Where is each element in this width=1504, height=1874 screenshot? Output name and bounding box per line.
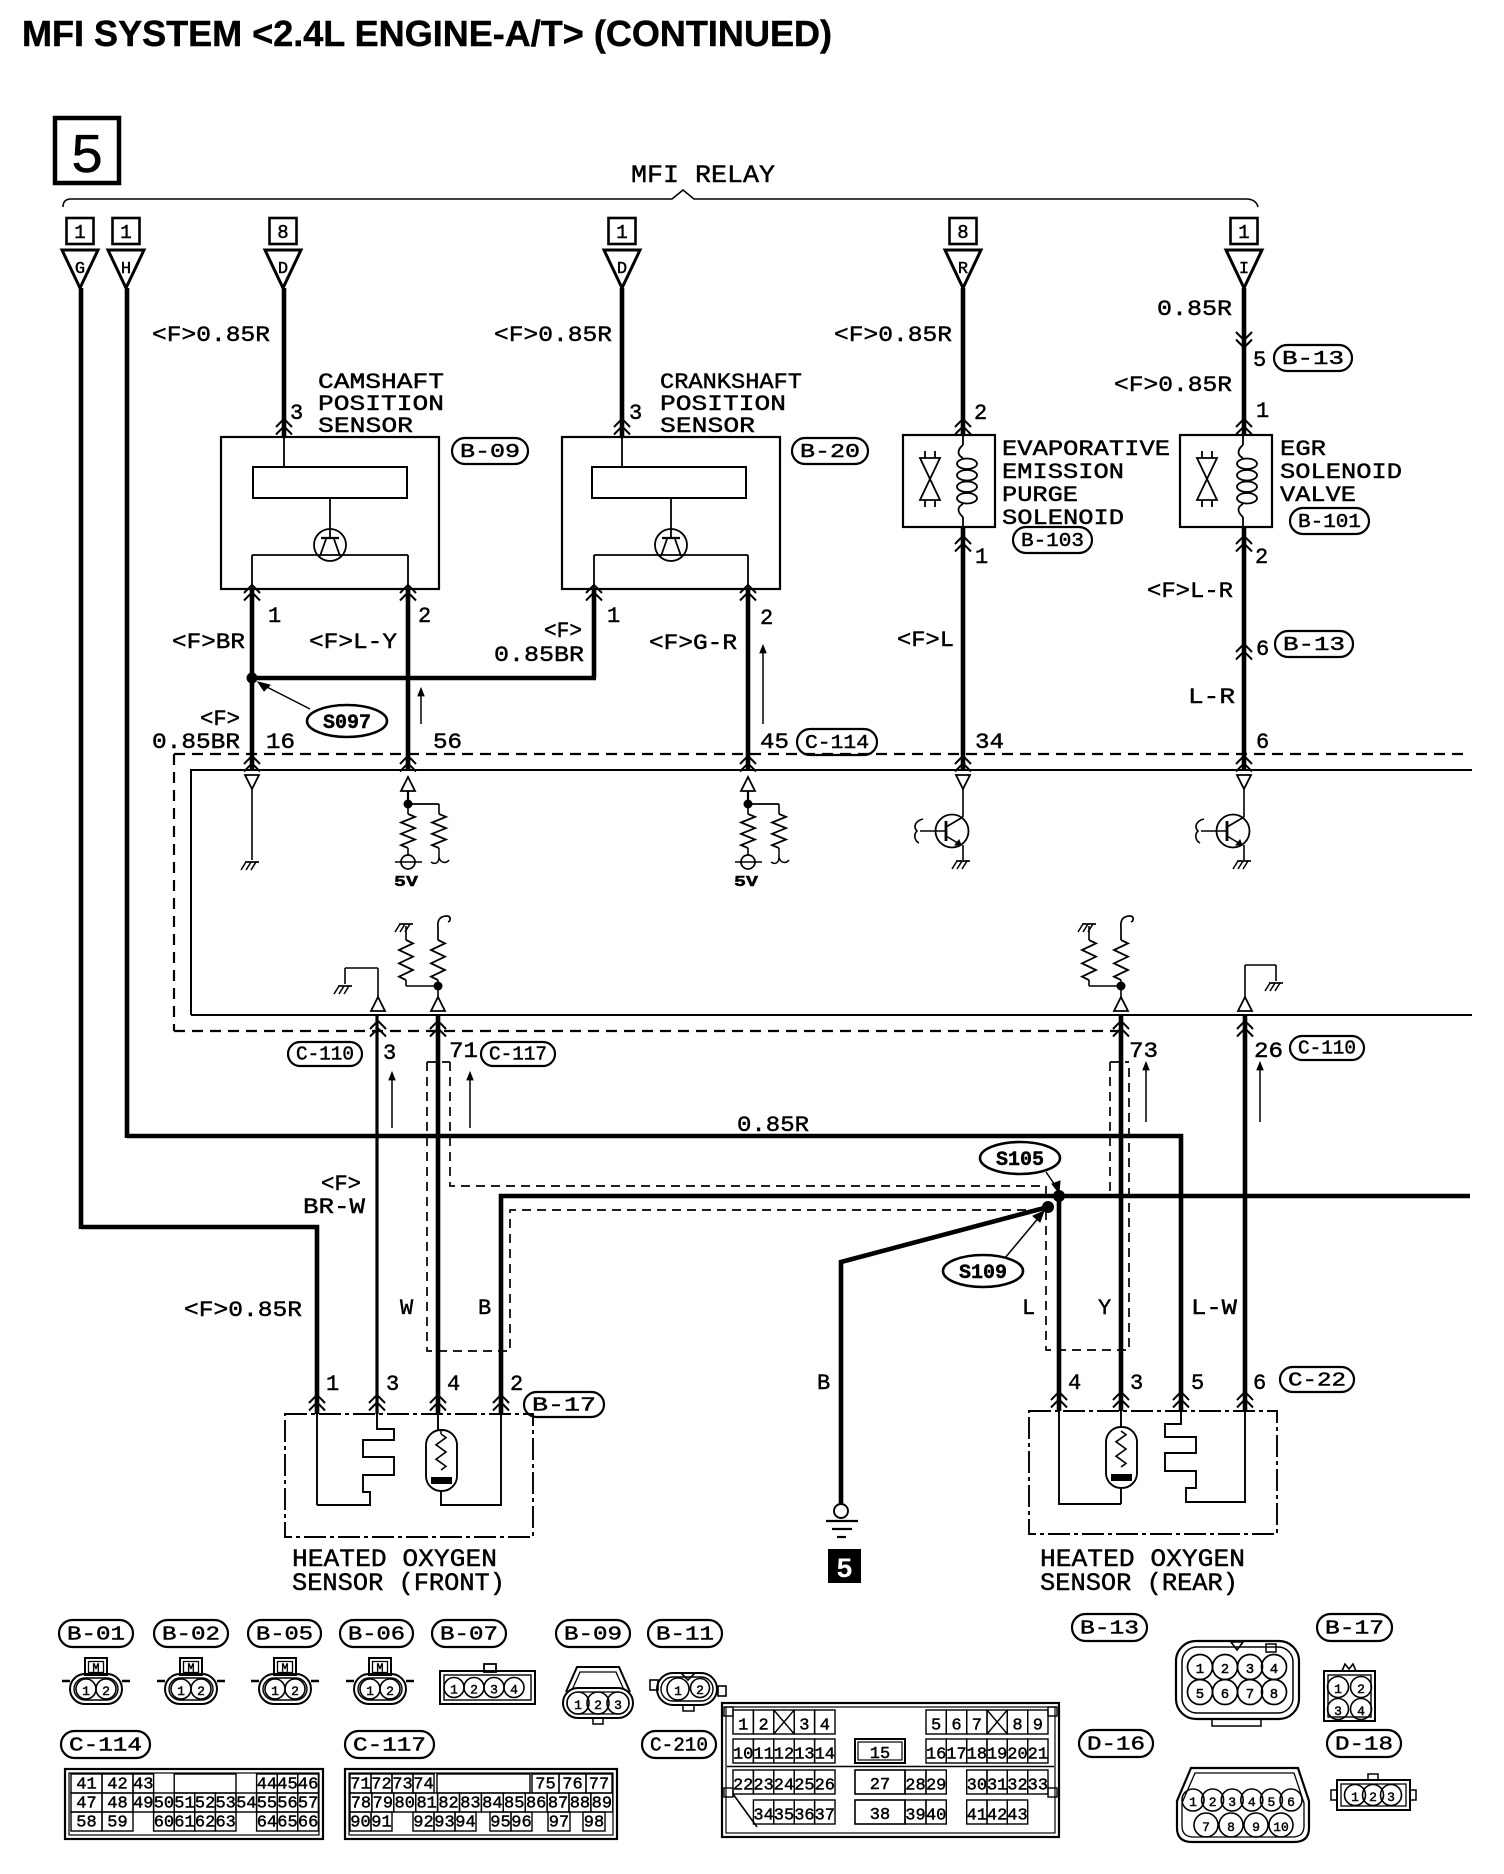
chevron ECU pin 3: [370, 1021, 386, 1029]
svg-text:58: 58: [76, 1814, 96, 1833]
svg-text:C-210: C-210: [650, 1735, 708, 1757]
chevron camshaft pin 3: [276, 419, 292, 427]
connector tag C-110 (right): [1290, 1036, 1364, 1060]
chevron purge pin 2: [955, 419, 971, 427]
chevron front pin 4: [430, 1395, 446, 1403]
chevron B-13 crossing (EGR feed): [1236, 332, 1252, 340]
chevron ECU pin 34: [955, 756, 971, 764]
svg-text:8: 8: [277, 222, 288, 244]
connector icon B-05: [251, 1658, 319, 1704]
junction S109 node: [1042, 1201, 1054, 1213]
svg-text:MFI RELAY: MFI RELAY: [631, 161, 775, 190]
svg-text:36: 36: [794, 1807, 814, 1826]
svg-text:14: 14: [815, 1746, 835, 1765]
svg-text:94: 94: [455, 1814, 475, 1833]
svg-text:41: 41: [76, 1776, 96, 1795]
svg-text:2: 2: [1221, 1662, 1229, 1678]
svg-text:Y: Y: [1098, 1296, 1111, 1321]
ECU inner box: [191, 770, 1472, 1015]
connector pin box 1 (I): [1231, 218, 1258, 244]
connector pin box 8 (D cam): [270, 218, 297, 244]
chevron EGR pin 2: [1236, 536, 1252, 544]
svg-text:86: 86: [526, 1795, 546, 1814]
ECU dashed boundary: [174, 754, 1468, 1031]
crankshaft sensor internal wires: [594, 555, 748, 589]
svg-text:52: 52: [195, 1795, 215, 1814]
connector pinout grid C-117: [345, 1769, 617, 1839]
svg-text:78: 78: [351, 1795, 371, 1814]
svg-text:43: 43: [133, 1776, 153, 1795]
svg-text:B-05: B-05: [256, 1624, 313, 1646]
chevron ECU pin 56: [400, 756, 416, 764]
svg-text:10: 10: [733, 1746, 753, 1765]
svg-text:EGR: EGR: [1280, 437, 1326, 462]
connector pinout grid C-210: [722, 1703, 1059, 1837]
wire front sensor pin 2 up and S105 horizontal: [501, 1196, 1470, 1414]
svg-text:<F>: <F>: [544, 619, 582, 644]
svg-text:3: 3: [1228, 1795, 1236, 1810]
svg-text:1: 1: [1189, 1795, 1197, 1810]
svg-text:62: 62: [195, 1814, 215, 1833]
svg-text:54: 54: [236, 1795, 256, 1814]
ECU internal ground pin 16: [241, 775, 259, 870]
camshaft sensor hall element U: [314, 498, 346, 561]
svg-text:2: 2: [1357, 1682, 1365, 1697]
svg-text:29: 29: [926, 1777, 946, 1796]
connector tag B-17 (inline): [524, 1392, 604, 1417]
chevron B-13 crossing lower: [1236, 644, 1252, 652]
chevron crankshaft pin 2: [740, 585, 756, 593]
svg-text:4: 4: [447, 1372, 460, 1397]
ground symbol B wire: [826, 1504, 858, 1537]
chevron camshaft pin 1: [244, 585, 260, 593]
svg-text:BR-W: BR-W: [303, 1195, 366, 1220]
svg-text:L-R: L-R: [1188, 685, 1235, 710]
svg-text:73: 73: [1129, 1039, 1158, 1064]
svg-text:B-09: B-09: [564, 1624, 622, 1646]
svg-text:L-W: L-W: [1191, 1296, 1238, 1321]
ECU internal driver transistor pin 6: [1196, 775, 1251, 869]
svg-text:B-17: B-17: [532, 1394, 596, 1416]
svg-text:60: 60: [154, 1814, 174, 1833]
svg-text:1: 1: [674, 1684, 682, 1699]
svg-text:55: 55: [257, 1795, 277, 1814]
wire H horizontal 0.85R to rear sensor pin 5: [127, 1136, 1181, 1411]
svg-text:85: 85: [504, 1795, 524, 1814]
svg-text:4: 4: [1357, 1704, 1365, 1719]
svg-text:63: 63: [215, 1814, 235, 1833]
crankshaft sensor hall element U: [655, 498, 687, 561]
svg-text:I: I: [1239, 260, 1249, 279]
crankshaft sensor element: [592, 437, 746, 498]
svg-text:1: 1: [120, 222, 131, 244]
wire S097 horizontal: [250, 676, 596, 681]
chevron EGR pin 1: [1236, 419, 1252, 427]
svg-text:75: 75: [535, 1776, 555, 1795]
junction label S109: [943, 1211, 1044, 1287]
relay terminal I: [1226, 250, 1262, 288]
connector tag B-17 (legend): [1317, 1614, 1392, 1641]
svg-text:16: 16: [266, 730, 295, 755]
svg-text:1: 1: [1334, 1682, 1342, 1697]
connector icon B-13: [1176, 1641, 1299, 1726]
connector tag B-09: [452, 438, 528, 464]
svg-text:95: 95: [490, 1814, 510, 1833]
svg-text:84: 84: [482, 1795, 502, 1814]
svg-text:3: 3: [614, 1698, 622, 1713]
wire R to purge solenoid: [961, 288, 966, 435]
svg-text:EMISSION: EMISSION: [1002, 460, 1124, 485]
svg-text:2: 2: [760, 606, 773, 631]
svg-text:B-06: B-06: [348, 1624, 405, 1646]
connector tag C-22: [1280, 1367, 1354, 1392]
svg-text:2: 2: [470, 1683, 478, 1698]
svg-text:4: 4: [1068, 1371, 1081, 1396]
svg-text:B-17: B-17: [1325, 1618, 1384, 1640]
wire purge solenoid to ECU pin 34: [961, 527, 966, 770]
connector tag C-210: [642, 1731, 716, 1758]
connector icon B-01: [62, 1658, 130, 1704]
svg-text:1: 1: [74, 222, 85, 244]
relay terminal R: [945, 250, 981, 288]
svg-text:4: 4: [1248, 1795, 1256, 1810]
svg-text:D: D: [278, 260, 288, 279]
heated oxygen sensor rear box C-22: [1029, 1411, 1277, 1534]
svg-text:5: 5: [1253, 348, 1266, 373]
wire EGR solenoid to ECU pin 6: [1242, 527, 1247, 770]
svg-text:0.85BR: 0.85BR: [152, 730, 240, 755]
svg-text:1: 1: [1196, 1662, 1204, 1678]
svg-text:87: 87: [548, 1795, 568, 1814]
svg-text:B-01: B-01: [67, 1624, 125, 1646]
svg-text:53: 53: [215, 1795, 235, 1814]
svg-text:2: 2: [1209, 1795, 1217, 1810]
wire I to EGR solenoid: [1242, 288, 1247, 435]
svg-text:<F>0.85R: <F>0.85R: [1114, 373, 1232, 398]
svg-text:D: D: [617, 260, 627, 279]
chevron rear pin 3: [1113, 1392, 1129, 1400]
svg-text:44: 44: [257, 1776, 277, 1795]
junction S097 node: [247, 673, 258, 684]
svg-text:EVAPORATIVE: EVAPORATIVE: [1002, 437, 1170, 462]
EGR solenoid valve B-101 box: [1180, 435, 1272, 527]
ECU internal bent ground pin 3: [334, 968, 385, 1011]
chevron ECU pin 45: [740, 756, 756, 764]
svg-text:31: 31: [987, 1777, 1007, 1796]
svg-text:74: 74: [413, 1776, 433, 1795]
svg-text:3: 3: [629, 401, 642, 426]
svg-text:24: 24: [774, 1777, 794, 1796]
ECU internal 5V pull-up pin 56: [394, 777, 449, 891]
svg-text:34: 34: [975, 730, 1004, 755]
connector tag B-13 (lower): [1275, 631, 1353, 657]
svg-text:79: 79: [373, 1795, 393, 1814]
svg-text:B-07: B-07: [440, 1624, 498, 1646]
svg-text:SOLENOID: SOLENOID: [1280, 460, 1402, 485]
svg-text:7: 7: [972, 1717, 982, 1736]
wire crankshaft pin 2 to ECU pin 45: [746, 589, 751, 770]
svg-text:0.85BR: 0.85BR: [494, 643, 584, 668]
svg-text:1: 1: [326, 1372, 339, 1397]
relay terminal D (camshaft): [265, 250, 301, 288]
svg-text:12: 12: [774, 1746, 794, 1765]
connector pin box 1 (H): [113, 218, 140, 244]
svg-text:73: 73: [392, 1776, 412, 1795]
connector tag B-02: [154, 1620, 228, 1647]
connector icon D-18: [1331, 1774, 1416, 1810]
svg-text:5: 5: [1196, 1687, 1204, 1703]
evaporative emission purge solenoid B-103 box: [903, 435, 995, 527]
svg-text:5: 5: [1267, 1795, 1275, 1810]
connector tag C-114 (legend): [61, 1731, 150, 1758]
svg-text:5: 5: [836, 1555, 853, 1586]
arrow up beside wire 71: [469, 1075, 471, 1128]
svg-text:C-110: C-110: [1298, 1038, 1356, 1060]
connector tag C-110 (left): [288, 1042, 362, 1066]
svg-text:25: 25: [794, 1777, 814, 1796]
svg-text:32: 32: [1007, 1777, 1027, 1796]
svg-text:2: 2: [291, 1684, 299, 1699]
connector tag B-06: [340, 1620, 413, 1647]
svg-text:B-13: B-13: [1282, 348, 1344, 370]
svg-text:46: 46: [298, 1776, 318, 1795]
svg-text:3: 3: [1246, 1662, 1254, 1678]
svg-text:93: 93: [434, 1814, 454, 1833]
ECU internal driver transistor pin 34: [915, 775, 970, 869]
svg-text:91: 91: [371, 1814, 391, 1833]
svg-text:38: 38: [870, 1806, 890, 1825]
svg-text:B-09: B-09: [460, 441, 520, 463]
shield dashed outline left: [427, 1062, 1129, 1351]
svg-text:71: 71: [449, 1039, 478, 1064]
C-210 middle boxed cells: [724, 1707, 1057, 1827]
svg-text:D-16: D-16: [1087, 1734, 1145, 1756]
crankshaft position sensor B-20 box: [562, 437, 780, 589]
connector tag B-20: [792, 438, 868, 464]
connector pin box 1 (G): [67, 218, 94, 244]
svg-text:2: 2: [1369, 1790, 1377, 1805]
svg-text:82: 82: [438, 1795, 458, 1814]
chevron ECU pin 6: [1236, 756, 1252, 764]
wire B rear diagonal: [841, 1207, 1048, 1262]
connector tag C-117: [481, 1042, 555, 1066]
connector tag B-09 (legend): [556, 1620, 630, 1647]
wire crankshaft pin 1 down: [592, 589, 597, 678]
svg-text:<F>0.85R: <F>0.85R: [834, 323, 952, 348]
svg-text:C-110: C-110: [296, 1044, 354, 1066]
label CRANKSHAFT POSITION SENSOR: [660, 370, 802, 439]
EGR solenoid coil: [1237, 435, 1257, 527]
chevron front pin 3: [369, 1395, 385, 1403]
connector tag B-13 (upper): [1274, 345, 1352, 371]
svg-text:3: 3: [1387, 1790, 1395, 1805]
wire D to crankshaft sensor: [620, 288, 625, 437]
svg-text:76: 76: [562, 1776, 582, 1795]
purge solenoid valve symbol: [920, 451, 940, 507]
svg-text:33: 33: [1028, 1777, 1048, 1796]
svg-text:90: 90: [350, 1814, 370, 1833]
svg-text:50: 50: [154, 1795, 174, 1814]
svg-text:3: 3: [290, 401, 303, 426]
page tag 5 black box: [828, 1549, 861, 1586]
svg-text:6: 6: [1287, 1795, 1295, 1810]
svg-text:3: 3: [383, 1041, 396, 1066]
svg-text:<F>L-R: <F>L-R: [1147, 579, 1233, 604]
svg-text:B-13: B-13: [1080, 1618, 1139, 1640]
svg-text:39: 39: [905, 1807, 925, 1826]
front sensor zirconia element: [317, 1414, 394, 1505]
svg-text:22: 22: [733, 1777, 753, 1796]
svg-text:59: 59: [107, 1814, 127, 1833]
svg-text:27: 27: [870, 1776, 890, 1795]
svg-text:H: H: [121, 260, 131, 279]
junction label S105: [980, 1142, 1060, 1193]
svg-text:1: 1: [177, 1684, 185, 1699]
label EGR SOLENOID VALVE: [1280, 437, 1402, 508]
svg-text:34: 34: [753, 1807, 773, 1826]
label (F) BR-W: [303, 1172, 366, 1220]
arrow up beside wire 73: [1145, 1065, 1147, 1122]
svg-text:98: 98: [584, 1814, 604, 1833]
svg-text:<F>0.85R: <F>0.85R: [152, 323, 270, 348]
svg-text:SENSOR (FRONT): SENSOR (FRONT): [292, 1569, 505, 1598]
svg-text:3: 3: [490, 1683, 498, 1698]
svg-text:49: 49: [133, 1795, 153, 1814]
svg-text:19: 19: [987, 1746, 1007, 1765]
svg-text:15: 15: [870, 1745, 890, 1764]
svg-text:D-18: D-18: [1335, 1734, 1393, 1756]
connector icon B-17: [1324, 1664, 1375, 1721]
svg-text:28: 28: [905, 1777, 925, 1796]
purge solenoid coil: [957, 435, 977, 527]
svg-text:1: 1: [271, 1684, 279, 1699]
svg-text:3: 3: [386, 1372, 399, 1397]
chevron rear pin 4: [1051, 1392, 1067, 1400]
svg-text:40: 40: [926, 1807, 946, 1826]
chevron rear pin 6: [1237, 1392, 1253, 1400]
chevron purge pin 1: [955, 536, 971, 544]
connector tag B-103: [1013, 527, 1092, 553]
svg-text:35: 35: [774, 1807, 794, 1826]
wire camshaft pin 1 to ECU pin 16: [250, 589, 255, 770]
svg-text:10: 10: [1273, 1820, 1289, 1835]
svg-text:<F>G-R: <F>G-R: [649, 631, 737, 656]
svg-text:45: 45: [760, 730, 789, 755]
svg-text:2: 2: [758, 1717, 768, 1736]
svg-text:56: 56: [433, 730, 462, 755]
svg-text:S097: S097: [323, 712, 371, 735]
svg-text:3: 3: [1130, 1371, 1143, 1396]
svg-text:9: 9: [1252, 1820, 1260, 1835]
svg-text:26: 26: [815, 1777, 835, 1796]
camshaft position sensor B-09 box: [221, 437, 439, 589]
svg-text:1: 1: [738, 1717, 748, 1736]
svg-text:<F>BR: <F>BR: [172, 630, 245, 655]
relay terminal G: [62, 250, 98, 288]
connector icon B-07: [440, 1664, 535, 1704]
svg-text:2: 2: [386, 1684, 394, 1699]
svg-text:C-117: C-117: [489, 1044, 547, 1066]
svg-text:1: 1: [1256, 399, 1269, 424]
svg-text:43: 43: [1007, 1807, 1027, 1826]
svg-text:1: 1: [268, 604, 281, 629]
svg-text:1: 1: [975, 545, 988, 570]
svg-text:21: 21: [1028, 1746, 1048, 1765]
relay terminal D (crankshaft): [604, 250, 640, 288]
arrow up beside pin 45 wire: [762, 648, 764, 724]
svg-text:B-13: B-13: [1283, 634, 1345, 656]
svg-text:83: 83: [460, 1795, 480, 1814]
svg-text:97: 97: [549, 1814, 569, 1833]
wire ECU 71 to front sensor pin 4: [436, 1015, 441, 1414]
svg-text:89: 89: [592, 1795, 612, 1814]
connector icon B-11: [650, 1673, 726, 1711]
svg-text:2: 2: [418, 604, 431, 629]
connector tag B-101: [1290, 508, 1369, 534]
svg-text:11: 11: [753, 1746, 773, 1765]
svg-text:57: 57: [298, 1795, 318, 1814]
connector tag D-16: [1079, 1730, 1153, 1757]
svg-text:88: 88: [570, 1795, 590, 1814]
svg-text:C-114: C-114: [805, 732, 869, 754]
wire ECU 3 to front sensor pin 3: [375, 1015, 378, 1414]
svg-text:3: 3: [1334, 1704, 1342, 1719]
chevron rear pin 5: [1173, 1392, 1189, 1400]
svg-text:5: 5: [70, 125, 104, 189]
svg-text:MFI SYSTEM <2.4L ENGINE-A/T> (: MFI SYSTEM <2.4L ENGINE-A/T> (CONTINUED): [22, 13, 832, 54]
arrow up beside wire 26: [1259, 1065, 1261, 1122]
svg-text:20: 20: [1007, 1746, 1027, 1765]
svg-text:C-117: C-117: [353, 1735, 426, 1757]
svg-text:B: B: [478, 1296, 491, 1321]
ECU internal resistor pair pin 71: [395, 916, 450, 1011]
svg-text:66: 66: [298, 1814, 318, 1833]
chevron ECU pin 26: [1237, 1021, 1253, 1029]
connector tag B-13 (legend): [1072, 1614, 1147, 1641]
wire G to front sensor pin 1: [81, 1227, 317, 1414]
svg-text:26: 26: [1254, 1039, 1283, 1064]
svg-text:R: R: [958, 260, 968, 279]
svg-text:1: 1: [1238, 222, 1249, 244]
connector icon B-09: [563, 1667, 633, 1724]
heated oxygen sensor front box B-17: [285, 1414, 533, 1537]
svg-text:45: 45: [277, 1776, 297, 1795]
svg-text:65: 65: [277, 1814, 297, 1833]
connector tag B-05: [248, 1620, 321, 1647]
connector pinout grid C-114: [65, 1769, 323, 1839]
svg-text:C-114: C-114: [69, 1735, 142, 1757]
svg-text:B-11: B-11: [656, 1624, 714, 1646]
wire G vertical: [79, 288, 84, 1229]
svg-text:<F>: <F>: [200, 707, 240, 732]
svg-text:SENSOR (REAR): SENSOR (REAR): [1040, 1569, 1238, 1598]
wire B rear vertical to ground: [839, 1260, 844, 1504]
svg-text:L: L: [1022, 1296, 1035, 1321]
chevron front pin 2: [493, 1395, 509, 1403]
svg-text:42: 42: [987, 1807, 1007, 1826]
svg-text:1: 1: [574, 1698, 582, 1713]
svg-text:5V: 5V: [394, 874, 418, 891]
svg-text:6: 6: [1256, 637, 1269, 662]
svg-text:<F>0.85R: <F>0.85R: [494, 323, 612, 348]
svg-text:77: 77: [589, 1776, 609, 1795]
label EVAPORATIVE EMISSION PURGE SOLENOID: [1002, 437, 1170, 531]
svg-text:6: 6: [951, 1717, 961, 1736]
svg-text:B-101: B-101: [1298, 511, 1361, 533]
svg-text:61: 61: [174, 1814, 194, 1833]
svg-text:4: 4: [510, 1683, 518, 1698]
page tag 5 box: [55, 118, 119, 189]
